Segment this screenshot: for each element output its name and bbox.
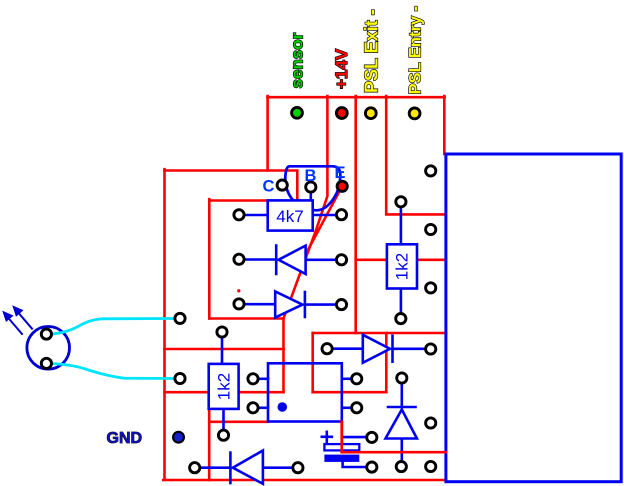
transistor Q1 outline	[285, 166, 340, 210]
diode D3 cathode bar	[391, 336, 394, 362]
node solder speck	[237, 289, 240, 292]
pad col239 D1-left	[234, 254, 244, 264]
wire divider PSL-Exit/PSL-Entry	[386, 96, 444, 214]
pad col400 R-right bottom	[396, 314, 406, 324]
capacitor C1 plus sign	[322, 435, 332, 438]
diode D4 cathode bar	[388, 406, 416, 409]
pad IC pin1-side top	[248, 374, 258, 384]
resistor 1k2 left body	[209, 364, 239, 409]
pad col430 row5	[426, 418, 436, 428]
pad col341 D1-right	[336, 255, 346, 265]
svg-text:GND: GND	[107, 430, 143, 447]
resistor 1k2 right leads	[400, 204, 403, 244]
pin PSL Exit terminal (yellow)	[365, 108, 376, 119]
pad D5 left	[190, 463, 200, 473]
wire red box left edge	[311, 333, 314, 392]
pad D3 anode	[322, 344, 332, 354]
capacitor C1 negative plate	[324, 455, 359, 462]
pad col239 4k7-left	[234, 210, 244, 220]
pin sensor terminal (green)	[292, 107, 303, 118]
wire link E to diode D1	[306, 186, 342, 253]
wire top box left edge	[266, 96, 269, 171]
pad D5 right	[293, 463, 303, 473]
wire rail y333 to connector	[313, 332, 446, 335]
pad col341 4k7-right	[336, 210, 346, 220]
connector J1 outline	[446, 154, 621, 482]
wire rail y260 to connector	[356, 258, 446, 261]
wire sensor lead 1	[53, 319, 177, 335]
wire inner top stub to 4k7	[209, 199, 268, 202]
wire IC row y422	[209, 420, 268, 423]
pad D4 cathode	[397, 373, 407, 383]
svg-text:PSL Exit -: PSL Exit -	[362, 9, 382, 93]
svg-text:E: E	[335, 164, 346, 182]
svg-text:sensor: sensor	[287, 32, 306, 88]
wire node row y318	[209, 317, 283, 320]
wire red box right edge	[385, 333, 388, 392]
diode D2 leads	[241, 303, 275, 306]
wire node row y392	[165, 391, 284, 394]
svg-text:C: C	[263, 177, 275, 195]
resistor 1k2 right body	[387, 244, 417, 288]
LED LD1 emission arrow 2	[18, 312, 33, 329]
svg-text:1k2: 1k2	[215, 373, 234, 400]
wire red box bottom edge	[313, 391, 387, 394]
diode D1 cathode bar	[275, 246, 278, 275]
pad sensor-in bottom	[175, 373, 185, 383]
wire node row y349	[165, 348, 284, 351]
pad R-left bottom	[218, 430, 228, 440]
wire cap red vertical over blue	[342, 422, 446, 452]
pin +14V terminal (red)	[336, 108, 347, 119]
diode D5 leads	[197, 466, 230, 469]
pad IC right top	[352, 374, 362, 384]
wire board top edge	[165, 171, 298, 203]
transistor Q1 base lead stub	[309, 192, 312, 201]
capacitor C1 top lead from IC	[341, 422, 344, 446]
pad col239 D2-left	[234, 299, 244, 309]
pad IC pin1-side bottom	[248, 403, 258, 413]
diode D1 leads	[241, 258, 276, 261]
capacitor C1 top lead to pad	[342, 436, 368, 439]
diode D4 triangle	[386, 410, 417, 439]
diode D3 leads	[329, 347, 363, 350]
pad B base	[306, 182, 316, 192]
opto IC U1 pin1 dot	[278, 402, 288, 412]
diode D3 triangle	[363, 335, 390, 363]
LED LD1 body circle	[27, 327, 70, 370]
pad E emitter (red)	[337, 181, 347, 191]
diode D1 triangle	[279, 246, 306, 274]
diode D4 vertical leads	[400, 380, 403, 407]
svg-text:PSL Entry -: PSL Entry -	[407, 6, 425, 95]
pad col341 D2-right	[336, 300, 346, 310]
pad col430 row3	[426, 283, 436, 293]
pad col430 D3-out	[426, 344, 436, 354]
resistor 1k2 left leads	[221, 334, 224, 364]
wire board bottom edge	[163, 479, 446, 482]
wire top box top edge	[268, 96, 445, 99]
diode D5 triangle	[233, 451, 263, 484]
pad col430 row1	[426, 166, 436, 176]
pad IC right bottom	[352, 403, 362, 413]
wire inner vertical x209 upper	[208, 199, 211, 318]
resistor 4k7 leads	[241, 214, 268, 217]
LED LD1 emission arrow 1	[8, 317, 23, 334]
pad col400 top	[396, 197, 406, 207]
wire sensor lead 2	[53, 364, 177, 379]
pad R-left top	[217, 327, 227, 337]
wire divider +14V/PSL-Exit down to lower rail	[354, 96, 357, 333]
pin PSL Entry terminal (yellow)	[409, 108, 420, 119]
svg-text:1k2: 1k2	[393, 253, 412, 280]
pad D4 anode	[396, 462, 406, 472]
svg-text:4k7: 4k7	[276, 207, 303, 226]
opto IC U1 body	[268, 363, 342, 421]
pad col430 row2	[426, 224, 436, 234]
pad sensor-in top	[175, 313, 185, 323]
opto IC U1 pin stubs	[255, 377, 268, 380]
capacitor C1 positive plate	[324, 444, 359, 450]
wire inner vertical x209 lower	[208, 409, 211, 480]
svg-text:B: B	[305, 167, 317, 185]
wire board left edge	[163, 169, 166, 480]
pad col430 row6	[426, 461, 436, 471]
capacitor C1 bottom lead	[343, 462, 368, 467]
wire divider sensor/+14V with diagonal to node	[284, 96, 328, 319]
node GND dot	[173, 432, 184, 443]
diode D5 cathode bar	[229, 453, 232, 483]
pad cap plus	[367, 432, 377, 442]
resistor 4k7 body	[268, 200, 313, 230]
wire top box right edge	[443, 96, 446, 154]
pad C collector	[277, 180, 287, 190]
pad cap minus	[367, 462, 377, 472]
svg-text:+14V: +14V	[332, 48, 351, 89]
wire vertical x282	[282, 319, 285, 393]
diode D2 triangle	[275, 292, 302, 318]
diode D2 cathode bar	[304, 292, 307, 317]
pad LED cathode	[41, 358, 51, 368]
pad LED anode	[41, 329, 51, 339]
